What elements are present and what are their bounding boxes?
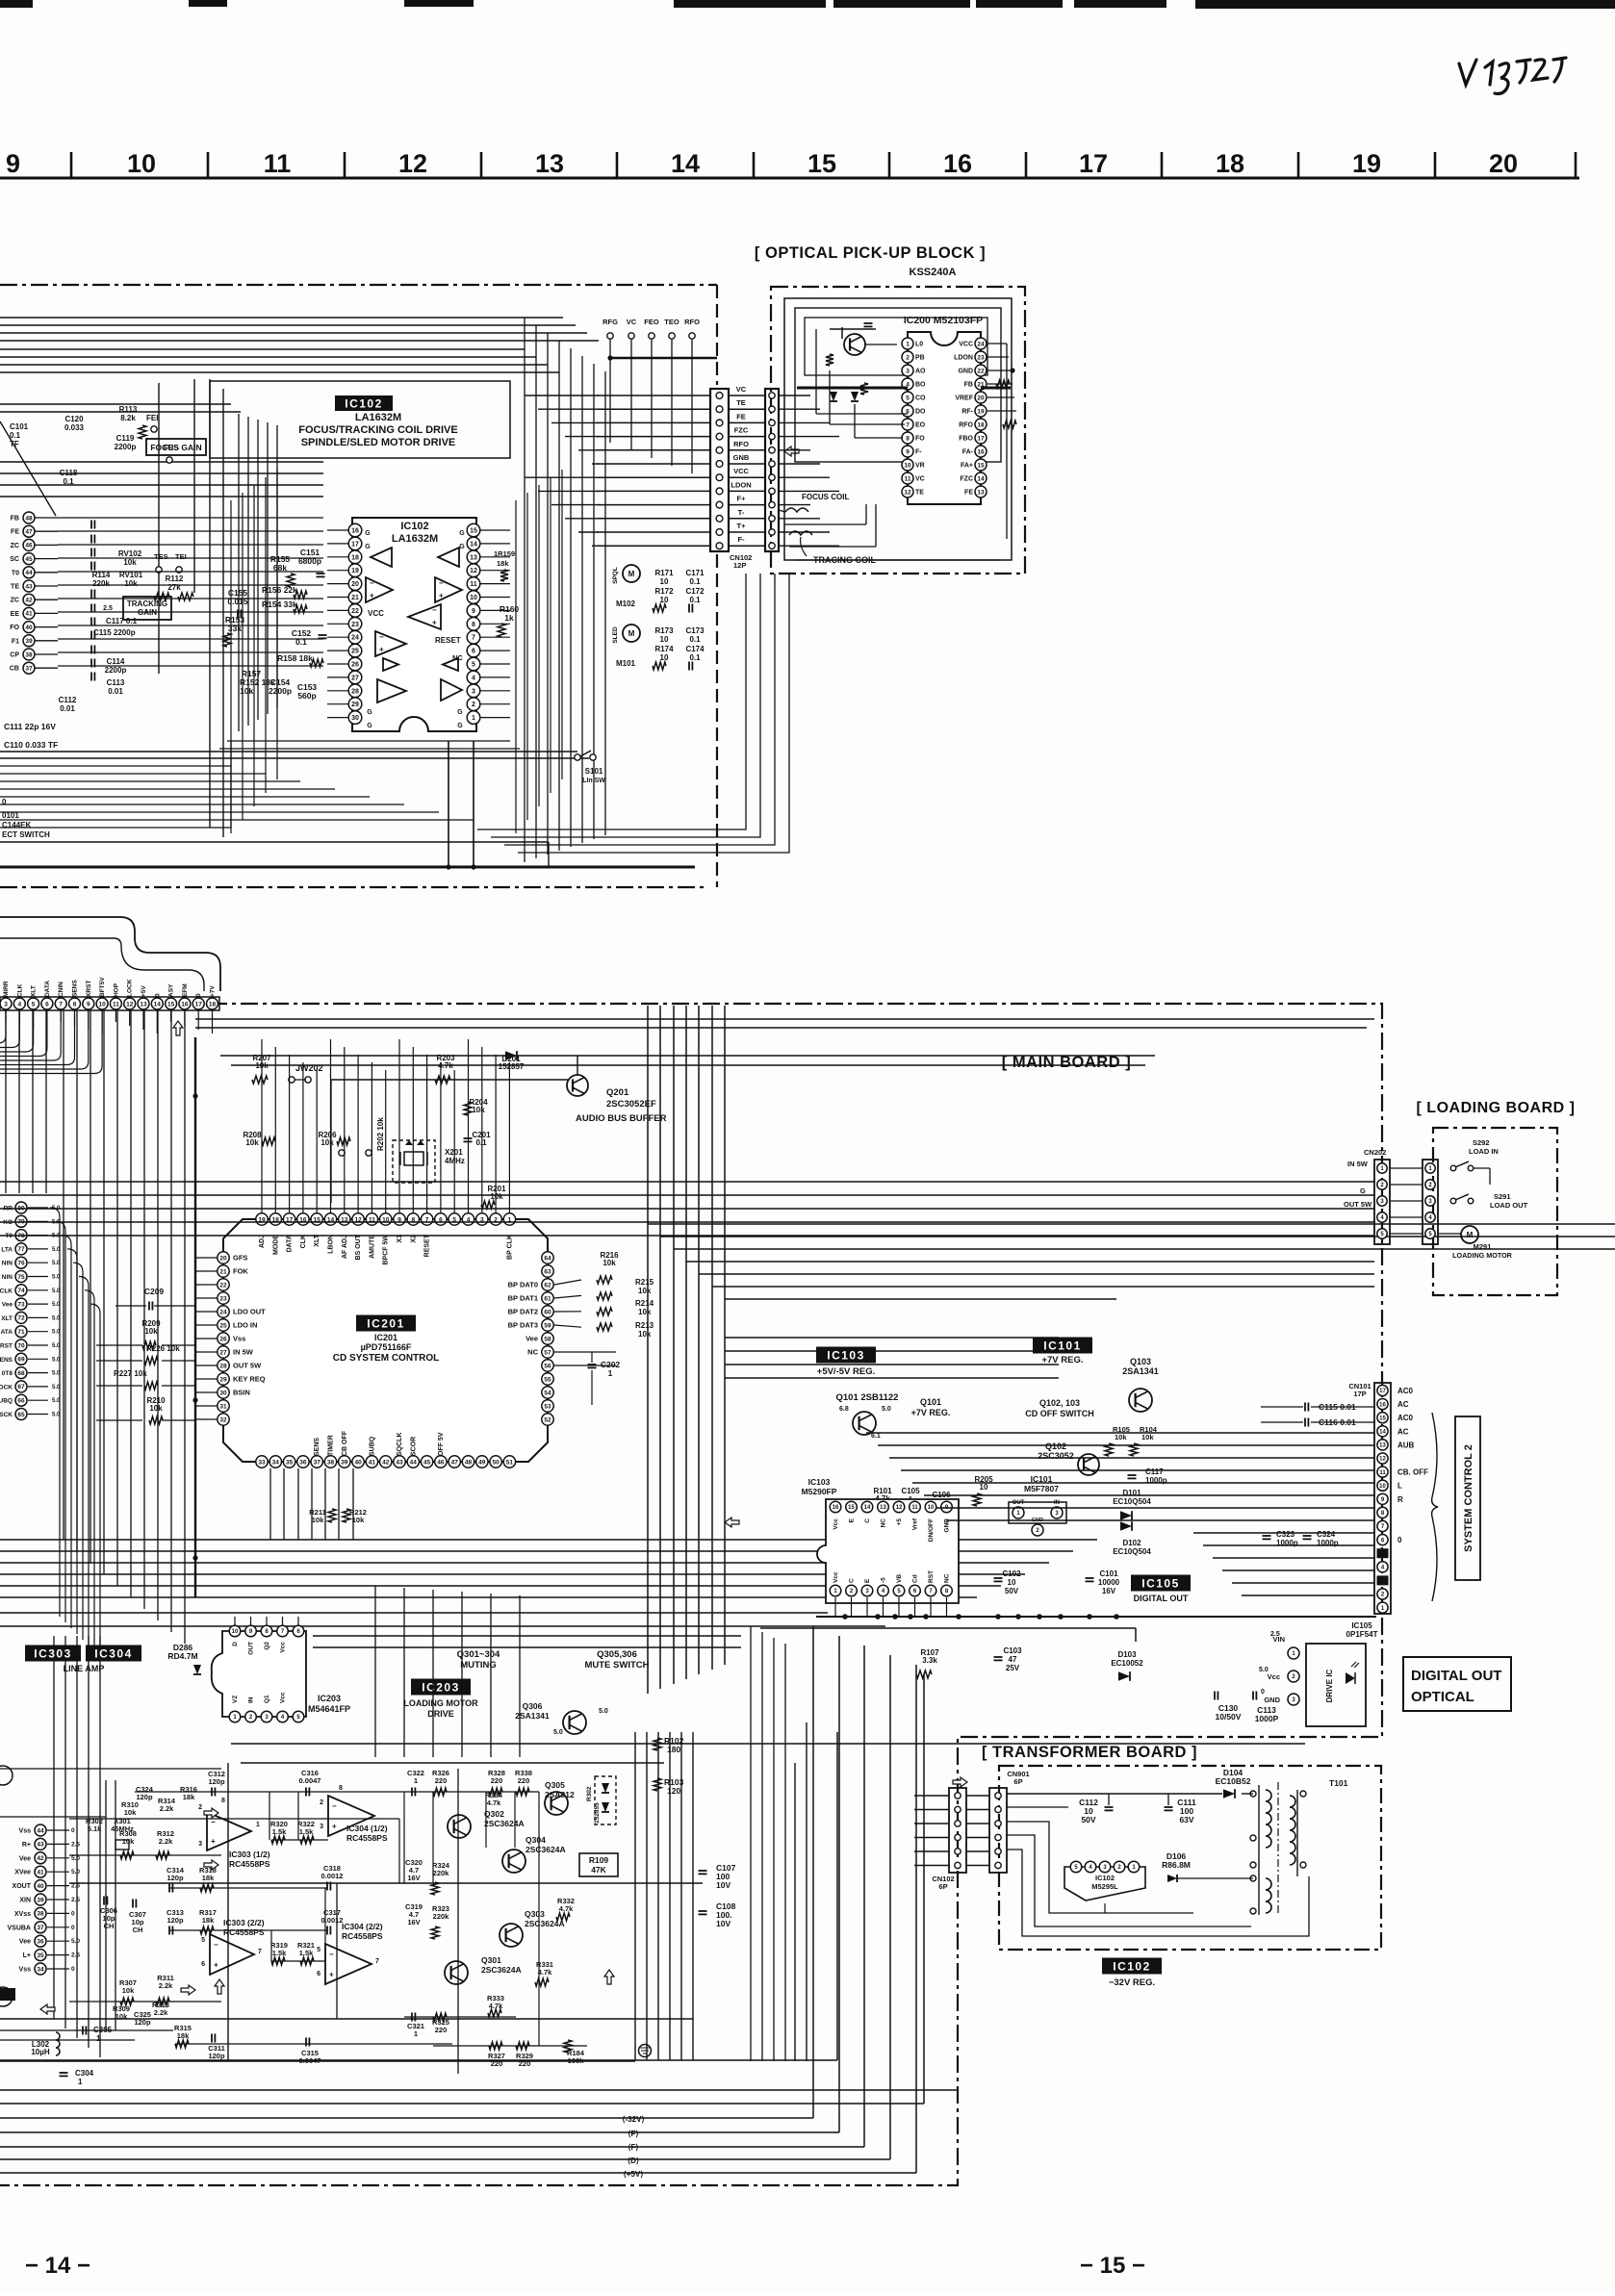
svg-text:AC: AC — [1397, 1427, 1409, 1436]
svg-text:SENS: SENS — [314, 1438, 320, 1456]
IC102 chip pins right 15-1 — [467, 523, 480, 537]
svg-text:R215: R215 — [635, 1278, 654, 1287]
svg-text:AC0: AC0 — [1397, 1387, 1414, 1395]
optical connector wires right — [779, 395, 810, 396]
svg-text:2SC3624A: 2SC3624A — [481, 1965, 522, 1975]
svg-text:18: 18 — [977, 421, 985, 428]
svg-text:1000P: 1000P — [1255, 1714, 1279, 1723]
svg-text:EE: EE — [11, 611, 20, 618]
svg-text:5.0: 5.0 — [1259, 1667, 1269, 1673]
svg-text:+: + — [379, 645, 384, 653]
svg-text:0: 0 — [71, 1910, 75, 1917]
svg-text:+7V REG.: +7V REG. — [1041, 1355, 1083, 1365]
svg-text:Q1: Q1 — [264, 1695, 270, 1703]
svg-text:D: D — [232, 1642, 239, 1646]
ruler ticks — [70, 152, 73, 178]
svg-text:IC304 (1/2): IC304 (1/2) — [346, 1824, 388, 1833]
IC203 chip body — [212, 1631, 306, 1717]
svg-text:23: 23 — [977, 354, 985, 361]
opamp IC303a — [207, 1812, 251, 1850]
svg-text:0.1: 0.1 — [689, 596, 701, 604]
svg-text:5: 5 — [472, 662, 475, 669]
svg-text:IC303: IC303 — [34, 1646, 72, 1660]
svg-text:IC304 (2/2): IC304 (2/2) — [342, 1922, 383, 1931]
svg-text:0.1: 0.1 — [689, 635, 701, 644]
svg-text:DATA: DATA — [44, 981, 51, 997]
svg-text:TEI: TEI — [175, 552, 187, 561]
wires into CN101 — [866, 1432, 1374, 1434]
svg-text:+: + — [432, 618, 437, 626]
svg-text:76: 76 — [17, 1261, 25, 1267]
svg-text:AF ADJ: AF ADJ — [342, 1235, 348, 1259]
svg-text:Cd: Cd — [912, 1574, 919, 1583]
svg-text:ECT SWITCH: ECT SWITCH — [2, 830, 50, 839]
svg-text:75: 75 — [17, 1274, 25, 1281]
CN102 12P connector — [710, 389, 729, 551]
svg-text:63V: 63V — [1179, 1815, 1193, 1824]
svg-text:FZC: FZC — [734, 426, 749, 435]
svg-text:EC10B52: EC10B52 — [1216, 1776, 1251, 1786]
muting transistors — [448, 1815, 471, 1838]
svg-text:ZC: ZC — [11, 598, 19, 604]
svg-text:C102: C102 — [1002, 1569, 1021, 1578]
svg-text:26: 26 — [351, 662, 359, 669]
svg-text:67: 67 — [17, 1384, 25, 1390]
horizontal runs gap to CN102 — [525, 395, 599, 396]
thick vertical wire x203 — [194, 1037, 196, 1597]
svg-text:BPCF 5W: BPCF 5W — [383, 1235, 390, 1265]
svg-text:3.3k: 3.3k — [922, 1656, 937, 1665]
svg-text:31: 31 — [219, 1403, 227, 1410]
svg-text:SC: SC — [10, 556, 19, 563]
bus cable outline — [0, 917, 220, 991]
audio upper rails — [231, 1743, 1305, 1745]
svg-text:LIn SW: LIn SW — [582, 778, 605, 784]
diagonal wire top left — [0, 421, 56, 516]
svg-text:G: G — [367, 709, 372, 716]
svg-text:220: 220 — [491, 1776, 503, 1785]
svg-text:17: 17 — [351, 541, 359, 548]
svg-text:10k: 10k — [122, 1986, 135, 1995]
svg-text:22: 22 — [977, 368, 985, 374]
svg-text:10: 10 — [470, 595, 477, 601]
svg-text:−: − — [439, 578, 444, 587]
svg-text:15: 15 — [807, 149, 836, 178]
svg-text:C174: C174 — [685, 645, 705, 653]
IC201 label — [356, 1315, 416, 1332]
svg-text:180: 180 — [667, 1745, 680, 1754]
audio column wires — [269, 1792, 270, 1840]
svg-text:14: 14 — [470, 541, 477, 548]
svg-text:⟨F⟩: ⟨F⟩ — [628, 2143, 638, 2152]
audio bundle right — [750, 1626, 752, 2061]
svg-text:16: 16 — [181, 1001, 189, 1008]
svg-text:CH: CH — [104, 1922, 115, 1930]
R109 box — [579, 1853, 618, 1876]
svg-text:R227 10k: R227 10k — [114, 1369, 147, 1378]
svg-text:R+: R+ — [22, 1842, 31, 1849]
svg-text:R173: R173 — [654, 626, 674, 635]
servo nested loop rects — [230, 500, 232, 833]
svg-text:C101: C101 — [1099, 1569, 1118, 1578]
svg-text:MIRR: MIRR — [3, 981, 10, 997]
svg-text:RC4558PS: RC4558PS — [229, 1859, 270, 1869]
optical diodes — [830, 392, 837, 401]
svg-text:74: 74 — [17, 1288, 25, 1294]
tracing coil — [789, 531, 812, 535]
svg-text:F+: F+ — [737, 495, 747, 503]
svg-text:0: 0 — [71, 1925, 75, 1931]
svg-text:1: 1 — [906, 341, 910, 347]
svg-text:77: 77 — [17, 1246, 25, 1253]
svg-text:L: L — [1397, 1482, 1402, 1491]
svg-text:+: + — [329, 1970, 334, 1978]
svg-text:55: 55 — [544, 1376, 551, 1383]
svg-text:M102: M102 — [616, 600, 636, 608]
svg-text:2SC3624A: 2SC3624A — [526, 1845, 566, 1854]
svg-text:10k: 10k — [1141, 1433, 1154, 1441]
svg-text:3: 3 — [4, 1001, 8, 1008]
svg-text:10k: 10k — [122, 1837, 135, 1846]
svg-text:7: 7 — [375, 1958, 379, 1965]
svg-text:0: 0 — [71, 1827, 75, 1834]
svg-text:49: 49 — [478, 1459, 486, 1466]
svg-text:C324: C324 — [1317, 1530, 1336, 1539]
svg-text:IC102: IC102 — [345, 396, 383, 410]
svg-text:TE: TE — [915, 490, 924, 497]
svg-text:BP DAT3: BP DAT3 — [508, 1321, 538, 1330]
svg-text:71: 71 — [17, 1329, 25, 1336]
svg-text:10k: 10k — [149, 1404, 163, 1413]
svg-text:DIGITAL OUT: DIGITAL OUT — [1411, 1668, 1501, 1684]
svg-text:37: 37 — [37, 1925, 44, 1931]
svg-text:D102: D102 — [1122, 1539, 1141, 1547]
svg-text:1.5k: 1.5k — [299, 1949, 314, 1957]
svg-text:59: 59 — [544, 1322, 551, 1329]
svg-text:FES: FES — [164, 444, 179, 452]
svg-text:NC: NC — [452, 653, 463, 662]
svg-text:C117: C117 — [1145, 1467, 1164, 1476]
transformer wires — [1007, 1793, 1222, 1795]
svg-text:20: 20 — [1489, 149, 1518, 178]
svg-text:ADJ: ADJ — [259, 1235, 266, 1248]
svg-text:SPQL: SPQL — [612, 567, 619, 584]
svg-text:GND: GND — [958, 369, 973, 375]
svg-text:152855: 152855 — [594, 1802, 601, 1824]
main board dash-dot border — [0, 1004, 1382, 2185]
svg-text:10k: 10k — [312, 1516, 324, 1524]
svg-text:− 14 −: − 14 − — [25, 2253, 90, 2279]
svg-text:E: E — [849, 1518, 856, 1522]
svg-text:FOCUS/TRACKING COIL DRIVE: FOCUS/TRACKING COIL DRIVE — [298, 424, 457, 436]
svg-text:AC: AC — [1397, 1400, 1409, 1409]
svg-text:33: 33 — [258, 1459, 266, 1466]
svg-text:DRIVE: DRIVE — [427, 1709, 454, 1719]
svg-text:18k: 18k — [202, 1916, 215, 1925]
svg-text:13: 13 — [470, 554, 477, 561]
svg-text:CN202: CN202 — [1364, 1148, 1386, 1157]
svg-text:5: 5 — [32, 1001, 36, 1008]
svg-text:IC303 (2/2): IC303 (2/2) — [223, 1918, 265, 1927]
svg-text:SUBQ: SUBQ — [369, 1436, 375, 1456]
svg-text:28: 28 — [351, 688, 359, 695]
svg-text:1: 1 — [78, 2078, 83, 2086]
IC102 internal opamps — [371, 548, 392, 567]
IC201 top pins 19-1 — [256, 1213, 268, 1225]
svg-text:11: 11 — [470, 581, 477, 588]
svg-text:RST: RST — [928, 1570, 935, 1583]
svg-text:DIGITAL OUT: DIGITAL OUT — [1134, 1594, 1189, 1603]
svg-text:Q304: Q304 — [526, 1835, 546, 1845]
arrow near CN102 — [784, 446, 799, 456]
svg-text:Q302: Q302 — [484, 1809, 504, 1819]
svg-text:10: 10 — [98, 1001, 106, 1008]
svg-text:PB: PB — [915, 355, 925, 362]
svg-text:12: 12 — [896, 1505, 903, 1511]
svg-text:Vss: Vss — [19, 1828, 32, 1835]
svg-text:13: 13 — [140, 1001, 147, 1008]
svg-text:25: 25 — [219, 1322, 227, 1329]
svg-text:CNIN: CNIN — [58, 982, 64, 997]
optical transistor components — [826, 354, 833, 366]
svg-text:EC10Q504: EC10Q504 — [1113, 1547, 1151, 1556]
IC105 label — [1131, 1575, 1191, 1592]
svg-text:35: 35 — [37, 1952, 44, 1959]
svg-text:50V: 50V — [1081, 1815, 1095, 1824]
svg-text:12: 12 — [126, 1001, 134, 1008]
svg-text:VR: VR — [915, 463, 925, 470]
svg-text:KEY REQ: KEY REQ — [233, 1375, 266, 1384]
svg-text:10k: 10k — [144, 1327, 158, 1336]
svg-text:Vee: Vee — [526, 1335, 538, 1343]
svg-text:-5: -5 — [881, 1577, 887, 1583]
svg-text:22: 22 — [219, 1282, 227, 1288]
D302 dashed box — [595, 1776, 616, 1824]
svg-text:10/50V: 10/50V — [1216, 1712, 1242, 1722]
svg-text:4.7k: 4.7k — [538, 1968, 552, 1977]
svg-text:27: 27 — [219, 1349, 227, 1356]
svg-text:EO: EO — [915, 422, 926, 429]
black label left edge audio — [0, 1988, 15, 2001]
bus pin exit curves left — [0, 1010, 6, 1043]
svg-text:10: 10 — [660, 635, 669, 644]
svg-text:R113: R113 — [119, 405, 138, 414]
svg-text:+5: +5 — [896, 1518, 903, 1526]
svg-text:+: + — [214, 1960, 218, 1969]
svg-text:25V: 25V — [1006, 1664, 1020, 1672]
svg-text:32: 32 — [219, 1416, 227, 1423]
svg-text:0.01: 0.01 — [60, 704, 75, 713]
svg-text:65: 65 — [17, 1412, 25, 1418]
svg-text:13: 13 — [1379, 1443, 1386, 1449]
svg-text:16: 16 — [977, 448, 985, 455]
IC200 chip body — [908, 332, 981, 504]
svg-text:72: 72 — [17, 1315, 25, 1322]
svg-text:CLK: CLK — [0, 1288, 13, 1294]
svg-text:11: 11 — [1379, 1470, 1386, 1476]
optical block dash-dot border — [771, 287, 1025, 574]
svg-text:3: 3 — [472, 688, 475, 695]
svg-text:[ LOADING BOARD ]: [ LOADING BOARD ] — [1417, 1100, 1576, 1116]
drive IC box — [1306, 1644, 1366, 1726]
svg-text:41: 41 — [37, 1870, 44, 1876]
IC102 LA1632M chip body — [352, 518, 476, 731]
TRACKING GAIN label — [123, 597, 171, 620]
svg-text:L0: L0 — [915, 342, 923, 348]
IC203 function label — [411, 1679, 471, 1696]
svg-text:−: − — [329, 1950, 334, 1958]
caps on left connector — [90, 521, 92, 529]
svg-text:62: 62 — [544, 1282, 551, 1288]
svg-text:FOK: FOK — [233, 1267, 248, 1276]
IC200 pins left 1-12 — [902, 338, 913, 349]
svg-text:24: 24 — [219, 1309, 227, 1315]
IC103 chip body — [817, 1499, 959, 1603]
svg-text:Q101: Q101 — [920, 1397, 941, 1407]
svg-text:2.5: 2.5 — [1270, 1631, 1280, 1638]
svg-text:10k: 10k — [638, 1330, 652, 1339]
svg-text:CO: CO — [915, 395, 926, 402]
svg-text:Vcc: Vcc — [833, 1571, 839, 1583]
svg-text:4: 4 — [472, 675, 475, 681]
left edge verticals to audio — [53, 1636, 55, 2019]
audio left connector — [35, 1824, 46, 1836]
svg-text:11: 11 — [264, 149, 292, 178]
svg-text:5.1k: 5.1k — [88, 1824, 102, 1833]
svg-text:S291: S291 — [1494, 1192, 1511, 1201]
optical block drop wires — [477, 574, 746, 829]
svg-text:VB: VB — [896, 1574, 903, 1583]
svg-text:TE: TE — [11, 584, 19, 591]
svg-text:⟨+5V⟩: ⟨+5V⟩ — [624, 2170, 644, 2179]
svg-text:9: 9 — [6, 149, 20, 178]
svg-text:5.0: 5.0 — [71, 1869, 80, 1875]
svg-text:5: 5 — [201, 1937, 205, 1944]
svg-text:10: 10 — [904, 462, 911, 469]
second bundle corners right — [725, 1337, 1059, 1339]
svg-text:IC201: IC201 — [367, 1316, 405, 1330]
svg-text:37: 37 — [25, 666, 33, 673]
svg-text:15: 15 — [977, 462, 985, 469]
svg-text:GND: GND — [1264, 1696, 1280, 1704]
svg-text:Vee: Vee — [19, 1939, 31, 1946]
svg-text:LINE AMP: LINE AMP — [64, 1664, 105, 1673]
svg-text:50V: 50V — [1005, 1587, 1019, 1595]
svg-text:M5F7807: M5F7807 — [1024, 1484, 1059, 1493]
svg-text:2SA812: 2SA812 — [545, 1790, 575, 1799]
svg-text:2200p: 2200p — [269, 686, 292, 696]
svg-text:FOCUS COIL: FOCUS COIL — [802, 493, 849, 501]
svg-text:0P1F54T: 0P1F54T — [1346, 1630, 1378, 1639]
svg-text:EC10052: EC10052 — [1111, 1659, 1143, 1668]
svg-text:13: 13 — [535, 149, 564, 178]
svg-text:120p: 120p — [167, 1916, 184, 1925]
svg-text:T+: T+ — [737, 522, 747, 530]
svg-text:0.1: 0.1 — [63, 477, 74, 486]
svg-text:M291: M291 — [1474, 1242, 1492, 1251]
svg-text:FO: FO — [10, 625, 19, 631]
svg-text:1: 1 — [472, 715, 475, 722]
svg-text:TIMER: TIMER — [328, 1435, 335, 1456]
svg-text:C112: C112 — [59, 696, 77, 704]
svg-text:GFS: GFS — [233, 1254, 247, 1263]
svg-text:C209: C209 — [144, 1287, 165, 1296]
svg-text:0.0012: 0.0012 — [321, 1872, 344, 1880]
IC201 bottom drops to audio — [374, 1586, 376, 1757]
svg-text:−: − — [370, 578, 374, 587]
servo border dash above CN102 — [716, 285, 718, 385]
svg-text:EC10Q504: EC10Q504 — [1113, 1497, 1151, 1506]
svg-text:R: R — [1397, 1495, 1403, 1504]
svg-text:LOADING MOTOR: LOADING MOTOR — [403, 1698, 478, 1708]
svg-text:44: 44 — [37, 1827, 44, 1834]
svg-text:− 15 −: − 15 − — [1080, 2253, 1145, 2279]
svg-text:0.1: 0.1 — [295, 637, 307, 647]
S291 load out switch — [1450, 1198, 1456, 1204]
svg-text:6.1: 6.1 — [871, 1433, 881, 1440]
svg-text:2: 2 — [198, 1804, 202, 1811]
svg-text:19: 19 — [1352, 149, 1381, 178]
svg-text:Q103: Q103 — [1130, 1357, 1151, 1366]
svg-text:DO: DO — [915, 409, 926, 416]
svg-text:9: 9 — [906, 448, 910, 455]
svg-text:+: + — [211, 1837, 216, 1846]
svg-text:SQCLK: SQCLK — [397, 1433, 403, 1457]
optical right wires — [987, 343, 1007, 344]
svg-text:KSS240A: KSS240A — [910, 267, 957, 278]
svg-text:10: 10 — [1008, 1578, 1016, 1587]
svg-text:10k: 10k — [124, 1808, 137, 1817]
svg-text:MODE: MODE — [272, 1235, 279, 1255]
svg-text:17: 17 — [195, 1001, 203, 1008]
svg-text:28: 28 — [219, 1363, 227, 1369]
svg-text:M: M — [628, 629, 635, 638]
svg-text:G: G — [365, 530, 371, 537]
svg-text:OUT: OUT — [1013, 1500, 1025, 1506]
svg-text:C: C — [864, 1518, 871, 1523]
svg-text:24: 24 — [351, 635, 359, 642]
svg-text:XLT: XLT — [31, 985, 38, 997]
svg-text:SPINDLE/SLED MOTOR DRIVE: SPINDLE/SLED MOTOR DRIVE — [301, 437, 456, 448]
svg-text:2.2k: 2.2k — [159, 1981, 173, 1990]
svg-text:VSUBA: VSUBA — [7, 1925, 31, 1931]
IC201 right pins 64-52 — [542, 1252, 553, 1263]
IC201 bottom pins 33-51 — [256, 1456, 268, 1467]
svg-text:0.0012: 0.0012 — [321, 1916, 344, 1925]
svg-text:38: 38 — [37, 1911, 44, 1918]
svg-text:66: 66 — [17, 1398, 25, 1405]
svg-text:1: 1 — [96, 2034, 101, 2043]
svg-text:T101: T101 — [1329, 1778, 1348, 1788]
svg-text:42: 42 — [25, 598, 33, 604]
svg-text:RST: RST — [0, 1343, 13, 1350]
scan artifact strip top edge — [0, 0, 33, 8]
svg-text:38: 38 — [327, 1459, 335, 1466]
svg-text:16: 16 — [943, 149, 972, 178]
svg-text:G: G — [459, 544, 465, 550]
svg-text:Vee: Vee — [19, 1855, 31, 1862]
svg-text:DN/OFF: DN/OFF — [928, 1518, 935, 1542]
svg-text:C101: C101 — [10, 422, 29, 431]
svg-text:LOAD OUT: LOAD OUT — [1490, 1201, 1528, 1210]
svg-text:14: 14 — [864, 1505, 871, 1511]
svg-text:69: 69 — [17, 1357, 25, 1364]
svg-text:SYSTEM CONTROL 2: SYSTEM CONTROL 2 — [1463, 1444, 1474, 1552]
svg-text:16V: 16V — [407, 1918, 420, 1926]
svg-text:3: 3 — [320, 1824, 323, 1830]
svg-text:RC4558PS: RC4558PS — [346, 1833, 388, 1843]
R213 resistor — [597, 1323, 612, 1331]
